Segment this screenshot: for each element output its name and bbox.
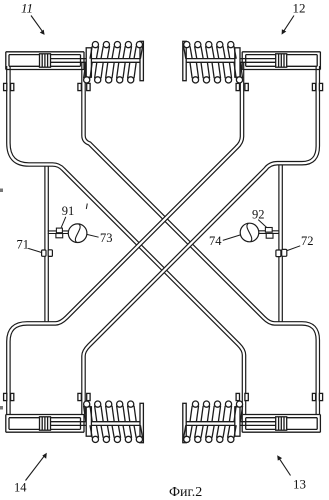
fitting 72 <box>276 249 287 256</box>
pump 73 <box>68 224 87 243</box>
cylinder-spring assembly 13 (bottom-right) <box>183 393 323 442</box>
svg-text:Фиг.2: Фиг.2 <box>169 485 202 500</box>
svg-text:13: 13 <box>293 477 306 492</box>
wire: run TL-inner down, diagonal to BR-outer <box>84 62 318 414</box>
edge mark left lower <box>0 406 3 410</box>
node 1 tick <box>86 204 87 210</box>
wire: run TR-inner down, diagonal to BL-outer <box>8 62 242 414</box>
cylinder-spring assembly 11 (top-left) <box>4 41 144 90</box>
wire: left side vertical pipe <box>44 165 49 322</box>
svg-text:74: 74 <box>209 234 222 248</box>
svg-text:14: 14 <box>14 481 27 495</box>
svg-text:91: 91 <box>62 204 75 218</box>
edge mark left upper <box>0 189 3 193</box>
wire: stub from left pipe to valve 91 and pump 73 (double line) <box>48 231 69 234</box>
fitting 71 <box>42 250 53 257</box>
valve 91 (flange pair) <box>56 228 63 238</box>
cylinder-spring assembly 14 (bottom-left) <box>4 393 144 442</box>
wire: run TR-outer down, right curve, T, diagonal to BL-inner <box>84 66 318 414</box>
svg-text:92: 92 <box>252 208 265 222</box>
wire: right side vertical pipe <box>278 164 283 322</box>
cylinder-spring assembly 12 (top-right) <box>183 41 323 90</box>
wire: run TL-outer down, left curve, T, diagonal to BR-inner <box>8 66 244 414</box>
svg-text:73: 73 <box>100 231 113 245</box>
svg-text:72: 72 <box>301 234 314 248</box>
svg-text:71: 71 <box>17 237 30 251</box>
pump 74 <box>240 223 259 242</box>
svg-text:11: 11 <box>21 0 33 15</box>
valve 92 (flange pair) <box>265 228 273 239</box>
svg-text:12: 12 <box>293 0 306 15</box>
wire: stub from right pipe to valve 92 and pump 74 (double line) <box>258 231 279 234</box>
